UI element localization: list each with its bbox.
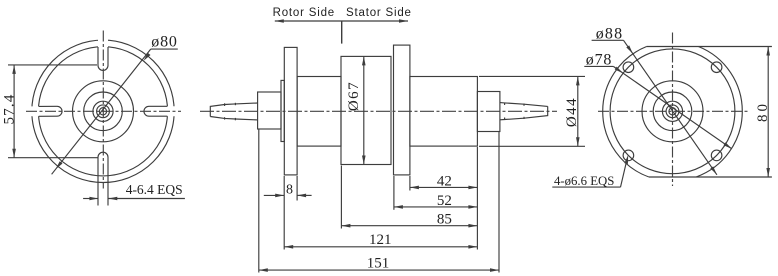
arrow rotor side	[275, 19, 284, 23]
dimension line 151	[259, 269, 499, 271]
extension line 42 left	[409, 176, 411, 191]
svg-text:Ø44: Ø44	[564, 97, 580, 127]
right cone tick2 bottom	[523, 117, 525, 119]
dimension line 52	[394, 206, 478, 208]
leader line 4-6.6	[621, 159, 628, 188]
left cone tick2 bottom	[234, 118, 236, 120]
right mounting slot cutout	[149, 106, 177, 116]
rotor flange disc	[284, 47, 297, 174]
rotor-stator divider line	[341, 21, 343, 44]
arrow D44 top	[576, 76, 580, 85]
extension line at body right	[476, 147, 478, 250]
leader underline D88	[592, 39, 624, 41]
svg-text:42: 42	[437, 173, 452, 189]
right view circle r10	[662, 101, 682, 121]
bolt hole top-left	[623, 62, 634, 73]
arrow 85 left	[341, 224, 350, 228]
right view circle r19	[653, 92, 692, 131]
right mounting slot	[144, 106, 167, 116]
right step cylinder	[477, 92, 500, 132]
right cone tick top	[504, 103, 506, 105]
right view circle r6	[666, 105, 679, 118]
left view horizontal centerline	[26, 110, 181, 112]
right shaft cone top	[500, 103, 548, 107]
label 121	[369, 232, 392, 248]
arrow 121 left	[284, 245, 293, 249]
label 4-6.4 EQS	[126, 182, 183, 197]
leader underline 4-6.6	[552, 186, 620, 188]
left cone tick top	[224, 103, 226, 106]
leader line D78	[613, 66, 732, 148]
dimension line 85	[341, 225, 477, 227]
left mounting slot cutout	[29, 106, 57, 116]
arrow 42 right	[468, 186, 477, 190]
arrow 57.4 bottom	[12, 149, 16, 158]
arrow 80 bottom	[766, 168, 770, 177]
svg-text:8: 8	[286, 182, 293, 197]
svg-text:ø78: ø78	[586, 51, 612, 68]
left shaft cone bottom	[210, 117, 257, 120]
right view outer circle right arc	[696, 47, 742, 178]
extension line 85 left	[340, 166, 342, 229]
svg-text:ø80: ø80	[151, 33, 177, 50]
left view circle r10	[93, 101, 113, 121]
bottom mounting slot	[98, 152, 108, 205]
extension line 57.4 top	[8, 64, 97, 66]
arrow 8 left	[275, 194, 284, 198]
arrow D67 top	[362, 56, 366, 65]
arrow 121 right	[468, 245, 477, 249]
arrow D88 far	[710, 166, 717, 174]
label 8	[286, 182, 293, 197]
arrow 42 left	[410, 186, 419, 190]
right view center hole	[669, 108, 676, 115]
label D67	[346, 81, 362, 111]
right view horizontal centerline	[598, 110, 749, 112]
arrow 4-6.4 right	[108, 197, 117, 201]
right view vertical centerline	[672, 33, 674, 187]
arrow stator side	[399, 19, 408, 23]
label Rotor Side	[273, 7, 335, 19]
extension line 151 right	[498, 132, 500, 273]
arrow D80 lower	[56, 161, 63, 169]
label 42	[437, 173, 452, 189]
right cone tick bottom	[504, 118, 506, 120]
bolt hole bottom-left	[623, 150, 634, 161]
extension line 57.4 bottom	[8, 157, 98, 159]
flat top edge and 80 extension line	[647, 46, 772, 48]
arrow 52 left	[394, 205, 403, 209]
bolt circle D78	[610, 49, 735, 174]
dimension line 80	[767, 47, 769, 178]
label D44	[564, 97, 580, 127]
svg-text:Rotor Side: Rotor Side	[273, 7, 335, 19]
svg-text:121: 121	[369, 232, 392, 248]
right view circle r30	[642, 81, 703, 142]
rotor shaft cylinder	[258, 92, 281, 129]
left view circle r6	[97, 105, 110, 118]
leader line D88	[624, 40, 717, 175]
svg-text:4-ø6.6 EQS: 4-ø6.6 EQS	[554, 174, 614, 188]
svg-text:80: 80	[755, 101, 771, 122]
arrow 57.4 top	[12, 65, 16, 74]
dimension line 57.4	[13, 65, 15, 158]
left view circle r30	[73, 81, 134, 142]
arrow D78 near	[615, 67, 623, 74]
arrow 8 right	[297, 194, 306, 198]
label 80	[755, 101, 771, 122]
top mounting slot cutout	[98, 37, 108, 65]
label 85	[437, 212, 452, 228]
left shaft cone top	[210, 103, 257, 117]
bolt hole bottom-right	[711, 150, 722, 161]
arrow 85 right	[468, 224, 477, 228]
dimension line D44	[577, 76, 579, 146]
left mounting slot	[39, 106, 62, 116]
extension line D44 bottom	[479, 145, 585, 147]
arrow 52 right	[468, 205, 477, 209]
svg-text:57.4: 57.4	[1, 93, 17, 124]
dimension line D67	[363, 56, 365, 164]
extension line 52 left	[393, 176, 395, 210]
top mounting slot	[98, 47, 108, 70]
label Stator Side	[346, 7, 412, 19]
extension line 8 right	[296, 176, 298, 201]
left view center hole	[99, 108, 106, 115]
extension line at flange left	[283, 176, 285, 250]
leader underline D80	[151, 48, 178, 50]
arrow 80 top	[766, 47, 770, 56]
arrow 4-6.4 left	[89, 197, 98, 201]
dimension tail 4-6.4 right	[108, 198, 185, 200]
label D88	[596, 25, 624, 42]
dimension tail 4-6.4 left	[83, 198, 98, 200]
rotor-stator arrow line	[275, 20, 408, 22]
dimension tail 8 left	[264, 194, 284, 196]
arrow D80 upper	[144, 53, 151, 61]
stator body cylinder D44	[410, 77, 478, 147]
bolt hole top-right	[711, 62, 722, 73]
right view outer circle left arc	[603, 47, 649, 178]
left cone tick2 top	[234, 103, 236, 105]
arrow D67 bottom	[362, 156, 366, 165]
stator flange disc	[394, 45, 410, 175]
arrow D78 far	[724, 142, 732, 149]
leader line D80	[52, 49, 151, 174]
svg-text:4-6.4 EQS: 4-6.4 EQS	[126, 182, 183, 197]
arrow D88 near	[626, 45, 633, 53]
extension line D44 top	[479, 75, 585, 77]
label 4-6.6 EQS	[554, 174, 614, 188]
dimension tail 8 right	[297, 194, 312, 196]
right cone tick2 top	[523, 104, 525, 106]
rotor body cylinder D44	[297, 77, 341, 147]
arrow D44 bottom	[576, 137, 580, 146]
arrow 151 left	[259, 268, 268, 272]
leader underline D78	[584, 65, 613, 67]
middle view centerline	[200, 110, 557, 112]
svg-text:85: 85	[437, 212, 452, 228]
dimension line 121	[284, 246, 477, 248]
left view vertical centerline	[102, 31, 104, 189]
label D78	[586, 51, 612, 68]
svg-text:151: 151	[367, 256, 390, 272]
svg-text:Ø67: Ø67	[346, 81, 362, 111]
left cone tick bottom	[224, 117, 226, 119]
svg-text:52: 52	[437, 193, 452, 209]
left view outer flange circle	[32, 40, 174, 182]
svg-text:ø88: ø88	[596, 25, 624, 42]
flat bottom edge and 80 extension line	[649, 176, 772, 178]
label D80	[151, 33, 177, 50]
stator cylinder D67	[341, 56, 391, 164]
washer ring	[281, 80, 284, 141]
left view circle r19	[84, 92, 123, 131]
arrow 151 right	[490, 268, 499, 272]
extension line 151 left	[258, 130, 260, 273]
arrow 4-6.6	[624, 155, 628, 164]
right shaft cone bottom	[500, 106, 548, 119]
svg-text:Stator Side: Stator Side	[346, 7, 412, 19]
label 151	[367, 256, 390, 272]
label 52	[437, 193, 452, 209]
dimension line 42	[410, 186, 478, 188]
label 57.4	[1, 93, 17, 124]
left view circle D80	[38, 47, 167, 176]
